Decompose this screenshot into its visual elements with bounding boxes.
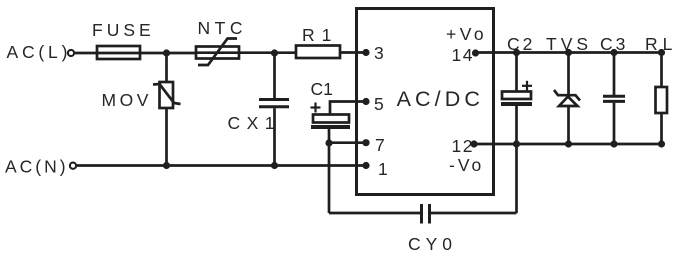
- capacitor CY0 plates: [420, 204, 423, 224]
- svg-text:CX1: CX1: [228, 113, 282, 133]
- node junction C3 bottom: [610, 140, 617, 147]
- svg-text:CY0: CY0: [408, 234, 457, 254]
- svg-text:3: 3: [374, 43, 387, 63]
- capacitor C1 plus sign: [311, 106, 321, 108]
- wire primary ground down to CY0: [328, 143, 331, 213]
- wire CX1 branch lower: [273, 108, 276, 165]
- svg-text:AC(L): AC(L): [7, 42, 72, 62]
- node junction NTC-CX1: [271, 49, 278, 56]
- svg-text:14: 14: [452, 45, 474, 65]
- wire RL branch upper: [660, 53, 663, 88]
- wire AC(L) to NTC input: [75, 52, 197, 55]
- pin 3 dot: [362, 49, 369, 56]
- node junction AC(L)-MOV: [163, 49, 170, 56]
- svg-text:RL: RL: [645, 34, 677, 54]
- node junction C2 bottom: [513, 140, 520, 147]
- wire C2 branch lower and CY0 drop: [515, 106, 518, 213]
- svg-text:+Vo: +Vo: [446, 24, 487, 44]
- wire MOV branch vertical: [165, 53, 168, 166]
- node junction RL top: [658, 49, 665, 56]
- node junction RL bottom: [658, 140, 665, 147]
- node junction TVS bottom: [565, 140, 572, 147]
- wire through NTC: [196, 51, 296, 54]
- diode TVS cathode bar: [554, 90, 580, 101]
- svg-text:AC(N): AC(N): [5, 157, 69, 177]
- capacitor C1 upper plate: [313, 115, 349, 123]
- node junction C1-pin7: [325, 139, 332, 146]
- svg-text:R1: R1: [302, 25, 338, 45]
- svg-text:C3: C3: [600, 34, 628, 54]
- varistor MOV body: [160, 82, 174, 108]
- varistor MOV diagonal stroke: [153, 84, 181, 104]
- pin 7 dot: [362, 139, 369, 146]
- wire C3 branch upper: [613, 53, 616, 96]
- node junction C3 top: [610, 49, 617, 56]
- wire -Vo rail: [474, 143, 662, 146]
- svg-text:C2: C2: [507, 34, 535, 54]
- terminal AC(N): [70, 163, 76, 169]
- node junction TVS top: [565, 49, 572, 56]
- capacitor C1 lower plate: [311, 125, 350, 129]
- wire C3 branch lower: [613, 103, 616, 144]
- pin 14 dot: [472, 49, 479, 56]
- diode TVS triangle: [559, 97, 578, 107]
- wire CY0 right segment: [431, 212, 517, 215]
- module U1 AC/DC box: [357, 9, 494, 195]
- capacitor C2 upper plate: [502, 92, 531, 100]
- thermistor NTC diagonal stroke: [198, 39, 237, 66]
- svg-text:TVS: TVS: [546, 34, 592, 54]
- svg-text:7: 7: [375, 135, 388, 155]
- wire C2 branch upper: [515, 53, 518, 92]
- wire C1 to pin7 junction: [328, 129, 331, 143]
- wire CX1 branch upper: [273, 53, 276, 98]
- thermistor NTC body: [196, 47, 239, 59]
- svg-text:12: 12: [452, 136, 474, 156]
- capacitor C3 plates: [603, 95, 625, 98]
- pin 12 dot: [470, 140, 477, 147]
- svg-text:MOV: MOV: [102, 90, 152, 110]
- wire TVS branch lower: [567, 106, 570, 144]
- terminal AC(L): [68, 50, 74, 56]
- wire R1 to module pin 3: [340, 51, 366, 54]
- wire junction to pin 7: [329, 141, 366, 144]
- capacitor C2 lower plate: [501, 102, 532, 106]
- pin 1 dot: [362, 162, 369, 169]
- svg-text:-Vo: -Vo: [449, 155, 484, 175]
- resistor R1 body: [296, 46, 340, 59]
- pin 5 dot: [362, 98, 369, 105]
- node junction MOV-AC(N): [163, 162, 170, 169]
- wire AC(N) to module pin 1: [77, 164, 367, 167]
- svg-text:5: 5: [374, 94, 387, 114]
- svg-text:C1: C1: [311, 79, 333, 99]
- svg-text:NTC: NTC: [198, 18, 247, 38]
- node junction C2 top: [513, 49, 520, 56]
- svg-text:FUSE: FUSE: [92, 20, 155, 40]
- svg-text:1: 1: [378, 159, 391, 179]
- wire CY0 left segment: [329, 212, 420, 215]
- wire TVS branch upper: [567, 53, 570, 96]
- capacitor C2 plus sign: [522, 85, 532, 87]
- svg-text:AC/DC: AC/DC: [397, 87, 484, 111]
- node junction CX1-AC(N): [271, 162, 278, 169]
- capacitor CX1 plates: [259, 98, 289, 101]
- fuse F (FUSE) body: [97, 46, 140, 59]
- resistor RL body: [656, 87, 668, 113]
- wire +Vo rail: [476, 51, 662, 54]
- wire pin 5 lead: [330, 102, 366, 115]
- wire RL branch lower: [660, 113, 663, 144]
